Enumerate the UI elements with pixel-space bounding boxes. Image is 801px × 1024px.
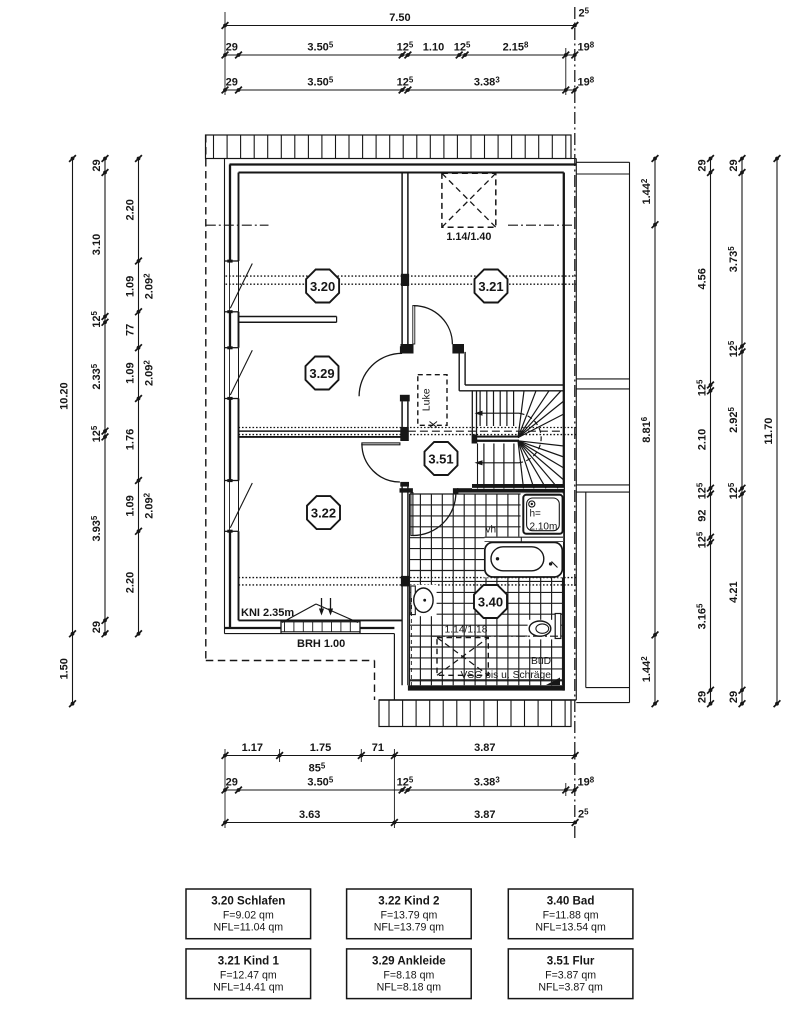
roof hatch dashed box 1.14/1.40 <box>442 173 496 227</box>
svg-text:29: 29 <box>91 621 103 633</box>
wall block at pair A <box>401 274 409 286</box>
svg-text:vh: vh <box>486 525 497 536</box>
svg-text:3.22: 3.22 <box>311 505 336 520</box>
toilet <box>528 620 562 640</box>
stair lower fan treads <box>518 441 564 446</box>
svg-text:29: 29 <box>697 159 709 171</box>
door D3 room 3.22 <box>400 482 409 487</box>
svg-text:25: 25 <box>579 6 590 19</box>
wall between 3.29 and hall segment <box>401 401 403 427</box>
left dim line 2 <box>90 155 108 637</box>
bath corner triangle <box>546 678 560 686</box>
svg-text:NFL=13.79 qm: NFL=13.79 qm <box>374 922 445 934</box>
svg-text:125: 125 <box>696 379 709 396</box>
stair walking line upper with arrow <box>480 412 520 414</box>
svg-text:71: 71 <box>372 742 384 754</box>
svg-text:125: 125 <box>454 40 471 53</box>
svg-text:125: 125 <box>727 482 740 499</box>
stair bottom / bath top wall dark band <box>472 484 564 488</box>
bottom extension lines <box>224 749 226 828</box>
svg-text:2.092: 2.092 <box>142 492 155 518</box>
svg-text:125: 125 <box>397 40 414 53</box>
bottom dim line 1 <box>222 742 579 759</box>
neighbor bottom lines <box>586 687 630 689</box>
svg-text:1.442: 1.442 <box>640 178 653 204</box>
svg-text:F=13.79 qm: F=13.79 qm <box>380 910 437 922</box>
svg-text:1.76: 1.76 <box>125 429 137 450</box>
room label 3.22 <box>307 496 340 529</box>
svg-text:BRH 1.00: BRH 1.00 <box>297 638 345 650</box>
dashed roof overhang outline left <box>205 135 207 661</box>
neighbor wall extension lower <box>576 484 629 486</box>
legend box 3.29 Ankleide <box>347 949 472 999</box>
svg-text:29: 29 <box>728 691 740 703</box>
right outer wall <box>563 173 565 691</box>
svg-text:NFL=11.04 qm: NFL=11.04 qm <box>214 922 284 934</box>
svg-text:2.20: 2.20 <box>125 199 137 220</box>
svg-text:11.70: 11.70 <box>763 418 775 445</box>
stair area north wall <box>465 384 564 386</box>
svg-text:2.10m: 2.10m <box>530 522 558 533</box>
bath shower dashed box <box>437 638 488 676</box>
svg-text:7.50: 7.50 <box>389 12 410 24</box>
top outer wall <box>225 158 577 160</box>
svg-text:2.335: 2.335 <box>90 363 103 389</box>
down arrows roof slope <box>321 598 323 611</box>
svg-text:25: 25 <box>578 807 589 820</box>
jamb block 3.29/3.22 wall end <box>400 427 409 441</box>
bottom dim line 2 <box>222 775 579 793</box>
svg-text:2.10: 2.10 <box>697 429 709 450</box>
bottom dim line 3 <box>222 809 579 826</box>
svg-text:1.17: 1.17 <box>242 742 263 754</box>
bottom roof hatch strip <box>379 700 571 727</box>
svg-text:3.87: 3.87 <box>474 809 495 821</box>
small x-mark at Luke bottom <box>430 422 438 428</box>
roof window triangle symbol <box>282 604 316 623</box>
svg-text:1.14/1.40: 1.14/1.40 <box>446 231 491 243</box>
bathroom tile grid <box>410 494 563 685</box>
svg-text:29: 29 <box>728 159 740 171</box>
svg-text:F=9.02 qm: F=9.02 qm <box>223 910 274 922</box>
svg-text:855: 855 <box>309 761 326 774</box>
svg-text:F=8.18 qm: F=8.18 qm <box>383 969 434 981</box>
svg-text:3.21: 3.21 <box>478 279 503 294</box>
svg-text:VSG bis u. Schräge: VSG bis u. Schräge <box>461 670 552 681</box>
washbasin <box>410 585 436 616</box>
svg-text:1.50: 1.50 <box>59 658 71 679</box>
svg-text:NFL=3.87 qm: NFL=3.87 qm <box>538 981 603 993</box>
neighbor east line <box>629 162 631 702</box>
svg-text:1.09: 1.09 <box>125 276 137 297</box>
svg-text:92: 92 <box>697 509 709 521</box>
svg-text:3.20: 3.20 <box>310 279 335 294</box>
svg-text:3.20 Schlafen: 3.20 Schlafen <box>211 895 285 908</box>
svg-text:3.505: 3.505 <box>307 75 333 88</box>
neighbor west line lower <box>585 492 587 687</box>
room label 3.20 <box>306 270 339 303</box>
svg-text:1.75: 1.75 <box>310 742 331 754</box>
stair upper flight treads <box>479 391 481 426</box>
dashed roof overhang outline bottom <box>206 660 375 662</box>
svg-text:125: 125 <box>696 531 709 548</box>
svg-text:3.21 Kind 1: 3.21 Kind 1 <box>218 954 280 967</box>
svg-text:3.63: 3.63 <box>299 809 320 821</box>
svg-text:3.51 Flur: 3.51 Flur <box>547 954 595 967</box>
svg-text:3.165: 3.165 <box>696 603 709 629</box>
wall between 3.29 and 3.22 <box>239 430 401 432</box>
stair cut bar <box>476 436 520 438</box>
dotted line pair C lower <box>239 577 577 579</box>
svg-text:1.09: 1.09 <box>125 495 137 516</box>
svg-text:F=3.87 qm: F=3.87 qm <box>545 969 596 981</box>
svg-text:F=11.88 qm: F=11.88 qm <box>543 910 599 922</box>
svg-text:29: 29 <box>226 777 238 789</box>
window W2 left wall <box>225 347 239 349</box>
right dim line 2 <box>696 155 714 707</box>
svg-text:198: 198 <box>578 75 595 88</box>
dotted line pair B middle <box>239 427 577 429</box>
svg-text:4.56: 4.56 <box>697 268 709 289</box>
svg-text:29: 29 <box>226 77 238 89</box>
axis extension line top left <box>224 12 226 95</box>
hall east wall upper <box>458 352 460 391</box>
svg-text:NFL=8.18 qm: NFL=8.18 qm <box>377 981 442 993</box>
stair walking line arc <box>520 413 542 462</box>
svg-text:h=: h= <box>530 509 542 520</box>
bathtub <box>484 542 563 577</box>
svg-text:4.21: 4.21 <box>728 581 740 602</box>
door D4 bath <box>411 493 413 536</box>
center axis dash-dot line <box>574 7 576 839</box>
room label 3.40 <box>474 585 507 618</box>
svg-text:2.20: 2.20 <box>125 572 137 593</box>
dotted line pair A upper <box>226 275 577 277</box>
svg-text:125: 125 <box>397 775 414 788</box>
door D1 room 3.21 <box>401 344 414 354</box>
svg-text:1.442: 1.442 <box>640 656 653 682</box>
neighbor wall extension top <box>576 161 629 163</box>
legend box 3.20 Schlafen <box>186 889 311 939</box>
right dim line 3 <box>727 155 745 707</box>
svg-text:29: 29 <box>697 691 709 703</box>
shower head <box>529 501 535 507</box>
bath bottom tile border <box>410 680 563 682</box>
bath dashed vertical lines <box>409 598 411 687</box>
stair upper fan treads <box>518 391 524 438</box>
knee-wall window BRH 1.00 <box>281 621 360 623</box>
bath bottom wall <box>408 685 564 690</box>
window W3 left wall <box>225 480 239 482</box>
svg-text:3.383: 3.383 <box>474 775 500 788</box>
left dim line 1 <box>59 155 76 707</box>
svg-text:3.735: 3.735 <box>727 246 740 272</box>
svg-text:125: 125 <box>696 482 709 499</box>
extension line x=565.8 top <box>565 48 567 95</box>
svg-text:1.14/1.18: 1.14/1.18 <box>445 625 488 636</box>
stair walking line lower with arrow <box>480 462 520 464</box>
Luke dashed box <box>418 375 447 426</box>
svg-text:KNI 2.35m: KNI 2.35m <box>241 607 294 619</box>
legend box 3.22 Kind 2 <box>347 889 472 939</box>
svg-text:NFL=14.41 qm: NFL=14.41 qm <box>213 981 284 993</box>
svg-text:BüD: BüD <box>531 656 551 667</box>
roof dash-dot line y=225 left <box>206 224 269 226</box>
svg-text:29: 29 <box>226 42 238 54</box>
svg-text:8.816: 8.816 <box>640 416 653 442</box>
legend box 3.21 Kind 1 <box>186 949 311 999</box>
svg-text:3.505: 3.505 <box>307 40 333 53</box>
left dim line 3 <box>125 155 142 637</box>
svg-text:1.10: 1.10 <box>423 42 444 54</box>
wall between 3.22 and bath <box>401 486 403 685</box>
right dim line 1 <box>640 155 658 707</box>
svg-text:3.29: 3.29 <box>309 366 334 381</box>
svg-text:3.22 Kind 2: 3.22 Kind 2 <box>378 895 439 908</box>
bottom wall room 3.22 <box>239 619 403 621</box>
stair west wall <box>471 391 473 435</box>
svg-text:29: 29 <box>91 159 103 171</box>
svg-text:2.092: 2.092 <box>142 360 155 386</box>
roof dash-dot line y=225 right <box>508 224 574 226</box>
bath dash-dot line <box>431 635 558 637</box>
svg-text:NFL=13.54 qm: NFL=13.54 qm <box>535 922 606 934</box>
legend box 3.40 Bad <box>508 889 633 939</box>
svg-text:3.29 Ankleide: 3.29 Ankleide <box>372 954 446 967</box>
svg-text:3.40: 3.40 <box>478 594 503 609</box>
svg-text:Luke: Luke <box>421 388 433 411</box>
wall between 3.20 and 3.29 (stub) <box>239 316 337 318</box>
right dim line 4 <box>763 155 780 707</box>
svg-text:198: 198 <box>578 40 595 53</box>
svg-text:198: 198 <box>578 775 595 788</box>
svg-text:2.092: 2.092 <box>142 273 155 299</box>
svg-text:125: 125 <box>727 340 740 357</box>
dashed roof overhang outline vertical <box>374 661 376 701</box>
legend box 3.51 Flur <box>508 949 633 999</box>
svg-text:77: 77 <box>125 324 137 336</box>
svg-text:3.40 Bad: 3.40 Bad <box>547 895 595 908</box>
svg-text:2.925: 2.925 <box>727 406 740 432</box>
svg-text:125: 125 <box>90 425 103 442</box>
door D2 room 3.29 <box>400 346 410 353</box>
left outer wall <box>224 159 226 634</box>
tub ledge wall <box>485 537 564 542</box>
svg-text:3.383: 3.383 <box>474 75 500 88</box>
svg-text:10.20: 10.20 <box>59 382 71 410</box>
wall between 3.20 and 3.21 <box>401 173 403 345</box>
svg-text:2.158: 2.158 <box>503 40 529 53</box>
neighbor wall extension middle <box>576 378 629 380</box>
top dim line 2 <box>222 40 579 58</box>
top dim line 7.50 <box>222 12 579 29</box>
svg-text:1.09: 1.09 <box>125 362 137 383</box>
svg-text:3.10: 3.10 <box>91 234 103 255</box>
svg-text:3.87: 3.87 <box>474 742 495 754</box>
top dim line 3 <box>222 75 579 93</box>
svg-text:F=12.47 qm: F=12.47 qm <box>220 969 277 981</box>
room label 3.51 <box>425 442 458 475</box>
svg-text:3.51: 3.51 <box>428 451 453 466</box>
stair lower flight treads <box>477 444 479 489</box>
shower zone <box>521 493 564 536</box>
wall block at pair C <box>401 576 409 587</box>
room label 3.29 <box>306 357 339 390</box>
svg-text:3.505: 3.505 <box>307 775 333 788</box>
svg-text:125: 125 <box>397 75 414 88</box>
svg-text:125: 125 <box>90 310 103 327</box>
room label 3.21 <box>475 270 508 303</box>
bath block west outer wall <box>393 634 395 700</box>
roof dashed line middle <box>408 430 564 432</box>
top roof hatch strip <box>206 135 572 159</box>
svg-text:3.935: 3.935 <box>90 515 103 541</box>
window W1 left wall <box>225 260 239 262</box>
